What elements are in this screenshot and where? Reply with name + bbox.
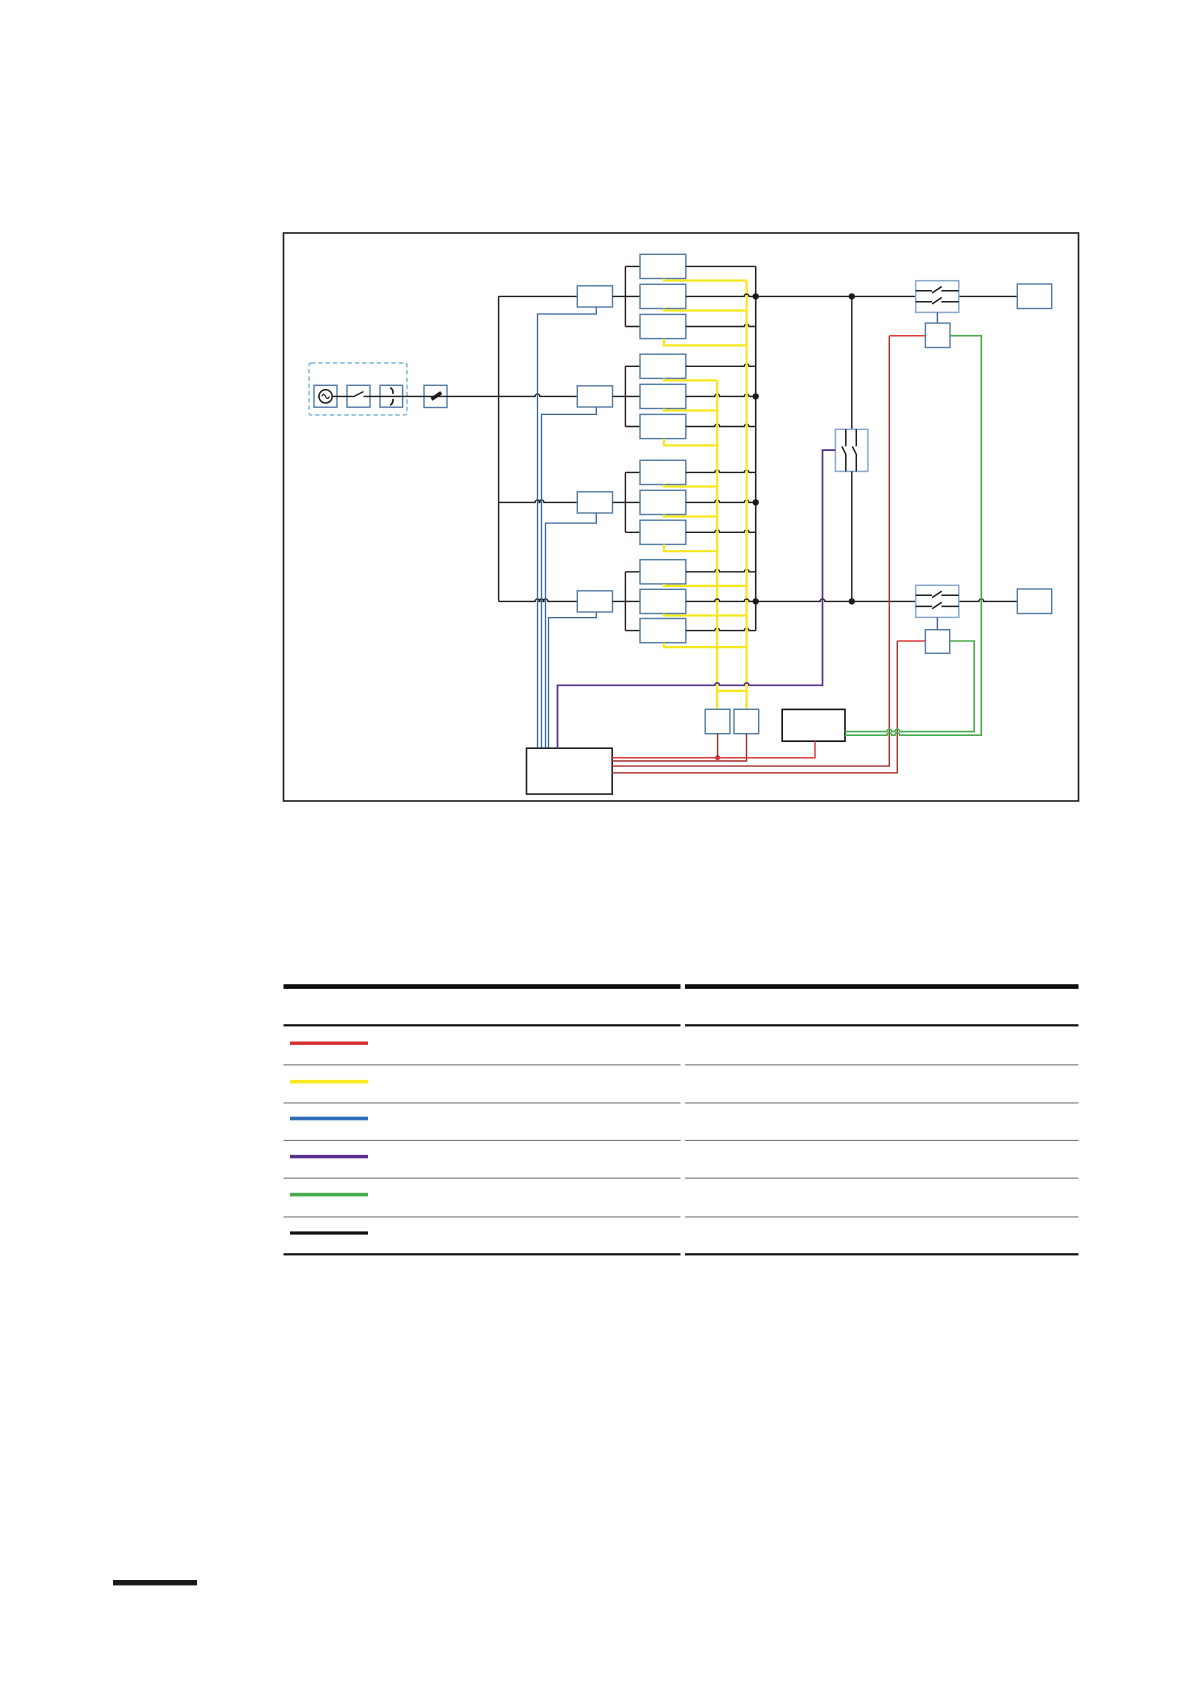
- yellow measuring wire: [664, 378, 717, 380]
- AC source box: [314, 385, 337, 407]
- junction node: [849, 598, 855, 604]
- wire branch to group 1: [499, 295, 578, 297]
- legend swatch black: [290, 1231, 368, 1234]
- wire top output: [686, 294, 916, 296]
- vertical collector bus: [755, 266, 757, 630]
- wire bracket group 4: [625, 572, 640, 631]
- wire branch to group 3: [499, 500, 578, 502]
- red wire meter M1 drop: [717, 734, 719, 758]
- wire ATS drop bottom: [851, 471, 853, 601]
- wire D2 to loads: [613, 395, 641, 397]
- yellow measuring wire: [664, 309, 747, 311]
- load box L5: [640, 384, 686, 408]
- legend header bottom rule: [284, 1024, 681, 1026]
- legend header thick rule: [284, 984, 681, 989]
- distributor box D3: [577, 492, 612, 513]
- yellow measuring wire: [664, 544, 717, 551]
- yellow measuring wire: [664, 515, 717, 517]
- load box L9: [640, 520, 686, 544]
- red wire controller to gateway: [612, 741, 815, 758]
- wire D4 to loads: [613, 600, 641, 602]
- yellow bus wire near: [716, 380, 718, 709]
- distributor box D4: [577, 591, 612, 612]
- wire load to bus: [686, 364, 756, 366]
- wire main feeder from source: [318, 395, 353, 397]
- legend swatch red: [290, 1042, 368, 1045]
- yellow measuring wire: [664, 485, 717, 487]
- wire D3 to loads: [613, 501, 641, 503]
- breaker CB2: [916, 585, 959, 617]
- load box L12: [640, 619, 686, 643]
- wire load to bus: [686, 530, 756, 532]
- legend row separator: [284, 1064, 681, 1065]
- blue control wire from D2: [542, 407, 597, 748]
- switch blade S1: [353, 392, 364, 397]
- yellow measuring wire: [664, 614, 747, 616]
- legend swatch purple: [290, 1155, 368, 1158]
- yellow measuring wire: [664, 584, 747, 586]
- legend swatch blue: [290, 1117, 368, 1121]
- wire bracket group 3: [625, 472, 640, 532]
- wire CB1 to OUT1: [959, 295, 1018, 297]
- main disconnect box: [424, 385, 447, 407]
- CB2 switch contacts: [916, 591, 959, 598]
- trip unit SB2: [925, 630, 949, 654]
- wire D1 to loads: [613, 295, 641, 297]
- diagram border frame: [284, 233, 1079, 801]
- wire load to bus: [686, 394, 756, 396]
- purple control wire ATS to controller: [558, 450, 836, 748]
- wire load to bus: [686, 470, 756, 472]
- wire load to bus: [686, 569, 756, 571]
- load box L11: [640, 589, 686, 613]
- wire bottom output: [686, 599, 916, 601]
- green wire SB2 to gateway: [845, 641, 974, 732]
- load box L6: [640, 414, 686, 438]
- junction node: [753, 499, 759, 505]
- red junction dot: [715, 755, 720, 760]
- red wire controller to trip unit SB1: [612, 336, 889, 766]
- wire load to bus: [686, 500, 756, 502]
- CB1 switch contacts: [916, 287, 959, 294]
- distributor box D2: [577, 386, 612, 407]
- blue control wire from D3: [546, 513, 597, 748]
- load box L7: [640, 460, 686, 484]
- wire left trunk vertical: [498, 296, 500, 601]
- legend swatch yellow: [290, 1080, 368, 1084]
- blue control wire from D1: [538, 307, 597, 748]
- wire load to bus: [686, 628, 756, 630]
- load box L10: [640, 560, 686, 584]
- footer rule: [113, 1580, 197, 1585]
- legend row separator: [284, 1178, 681, 1179]
- yellow measuring wire: [664, 643, 747, 647]
- red wire controller to meter M2: [612, 734, 746, 761]
- ATS switch poles: [842, 429, 846, 471]
- junction node: [753, 598, 759, 604]
- coupling box: [380, 385, 403, 407]
- wire CB2 to OUT2: [959, 599, 1018, 601]
- junction node: [849, 293, 855, 299]
- yellow measuring wire: [664, 279, 747, 281]
- wire bracket group 2: [625, 366, 640, 426]
- yellow cross connector: [717, 690, 746, 692]
- main disconnect blade: [432, 393, 442, 400]
- wire branch to group 4: [499, 599, 578, 601]
- trip unit SB1: [925, 323, 950, 347]
- yellow measuring wire: [664, 339, 747, 346]
- wire ATS drop top: [851, 296, 853, 429]
- legend row separator: [284, 1140, 681, 1141]
- controller box U2: [527, 748, 613, 794]
- wire load to bus: [686, 265, 756, 267]
- yellow bus wire far: [745, 281, 747, 710]
- junction node: [753, 293, 759, 299]
- load box L3: [640, 314, 686, 338]
- legend row separator: [284, 1216, 681, 1217]
- legend bottom rule: [284, 1253, 681, 1255]
- gateway box U1: [782, 709, 845, 741]
- utility source dashed enclosure: [309, 363, 407, 415]
- transfer switch ATS: [835, 429, 868, 471]
- AC source symbol: [319, 390, 332, 403]
- red wire controller to trip unit SB2: [612, 641, 897, 773]
- load box L2: [640, 284, 686, 308]
- distributor box D1: [577, 286, 612, 307]
- legend swatch green: [290, 1193, 368, 1197]
- blue control wire from D4: [549, 612, 597, 748]
- load box L4: [640, 354, 686, 378]
- wire load to bus: [686, 424, 756, 426]
- wire bracket group 1: [625, 266, 640, 326]
- wire CB2 to trip unit SB2: [936, 617, 938, 629]
- legend row separator: [284, 1102, 681, 1103]
- load box L8: [640, 490, 686, 514]
- output terminal OUT2: [1017, 589, 1051, 614]
- breaker CB1: [916, 281, 959, 313]
- output terminal OUT1: [1017, 284, 1051, 309]
- yellow measuring wire: [664, 439, 717, 446]
- switch box S1: [347, 385, 370, 407]
- wire CB1 to trip unit SB1: [936, 312, 938, 323]
- coupling arcs symbol: [390, 388, 393, 394]
- load box L1: [640, 254, 686, 278]
- junction node: [753, 393, 759, 399]
- yellow measuring wire: [664, 409, 717, 411]
- meter M1: [705, 709, 730, 733]
- green wire SB1 to gateway: [845, 336, 981, 736]
- meter M2: [734, 709, 759, 733]
- wire load to bus: [686, 324, 756, 326]
